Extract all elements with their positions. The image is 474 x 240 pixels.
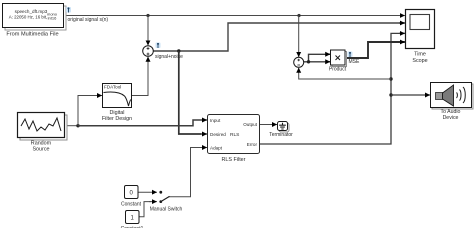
wire: branch down to Sum1 top input — [147, 16, 149, 46]
svg-text:Device: Device — [443, 115, 459, 121]
block Manual Switch — [150, 191, 183, 213]
block Digital Filter Design (FDATool) — [102, 84, 132, 123]
wire: Constant0 to manual switch top — [138, 191, 157, 193]
svg-text:Filter Design: Filter Design — [102, 116, 132, 122]
node junction error to audio — [389, 93, 392, 96]
block To Audio Device — [431, 83, 474, 121]
wire: RLS Output to Terminator — [260, 124, 277, 126]
svg-text:Scope: Scope — [412, 58, 427, 64]
op Sum1 (adder) — [143, 46, 154, 57]
node junction random source — [76, 124, 79, 127]
block Time Scope — [406, 10, 435, 64]
svg-text:Constant: Constant — [121, 201, 142, 207]
block Random Source — [18, 113, 68, 153]
wire: filtered noise from Digital Filter Design up to Sum1 bottom input — [132, 57, 148, 96]
node junction on original signal at x=299 — [297, 14, 300, 17]
svg-text:Output: Output — [243, 122, 258, 127]
svg-text:From Multimedia File: From Multimedia File — [6, 32, 58, 38]
wire: signal+noise from Sum1 to scope input2 — [154, 23, 405, 51]
svg-text:Adapt: Adapt — [210, 145, 223, 150]
wire: manual switch output to RLS Adapt input — [169, 148, 207, 197]
svg-text:Time: Time — [414, 52, 426, 58]
wire: signal+noise branch down to RLS Desired input — [179, 51, 207, 134]
svg-text:signal+noise: signal+noise — [155, 54, 183, 60]
svg-text:A: 22050 Hz, 16 bit,: A: 22050 Hz, 16 bit, — [9, 14, 48, 19]
svg-text:Source: Source — [32, 146, 49, 152]
block Product — [329, 50, 347, 73]
wire: original signal s(n) from multimedia file to scope input1 — [64, 15, 405, 17]
wire: MSE from Product to scope input4 — [345, 42, 405, 58]
svg-text:Input: Input — [210, 118, 221, 123]
op Sum2 (subtract) — [294, 57, 304, 67]
wire: Constant1 to manual switch bottom — [139, 202, 157, 217]
svg-text:speech_dft.mp3: speech_dft.mp3 — [15, 9, 48, 14]
wire: Sum2 output to Product inputs — [304, 54, 331, 62]
svg-text:RLS: RLS — [230, 132, 239, 138]
svg-text:Error: Error — [247, 142, 258, 147]
svg-text:MSE: MSE — [349, 59, 361, 65]
svg-text:int16: int16 — [48, 16, 57, 21]
block RLS Filter — [208, 115, 260, 164]
badge: logging antenna on MSE — [348, 52, 353, 58]
wire: noise up to Digital Filter Design input — [78, 96, 102, 126]
svg-text:Terminator: Terminator — [269, 132, 293, 138]
svg-text:Manual Switch: Manual Switch — [150, 206, 183, 212]
wire: error feedback to Sum2 bottom input — [299, 68, 391, 79]
svg-text:Desired: Desired — [210, 132, 226, 137]
node junction error feedback — [389, 77, 392, 80]
badge: logging antenna on signal+noise — [156, 43, 161, 49]
wire: branch down to Sum2 top input — [298, 16, 300, 57]
svg-text:RLS Filter: RLS Filter — [222, 157, 246, 163]
block From Multimedia File — [3, 4, 67, 38]
node junction on original signal at x=148 — [146, 14, 149, 17]
svg-text:Product: Product — [329, 67, 347, 73]
node junction signal+noise — [177, 49, 180, 52]
wire: noise to RLS Input — [78, 120, 207, 126]
svg-text:original signal s(n): original signal s(n) — [68, 17, 109, 23]
badge: logging antenna on original signal — [66, 7, 71, 13]
node junction sum2 output — [307, 60, 310, 63]
block Constant1 — [121, 211, 144, 233]
svg-text:Constant1: Constant1 — [121, 226, 144, 228]
wire: error branch to To Audio Device — [391, 94, 430, 96]
wire: random source output to junction — [65, 125, 78, 127]
svg-text:FDATool: FDATool — [104, 85, 121, 90]
block Constant0 — [121, 186, 142, 208]
block Terminator — [269, 122, 293, 139]
wire: RLS Error right and up to scope input3 — [260, 33, 405, 144]
